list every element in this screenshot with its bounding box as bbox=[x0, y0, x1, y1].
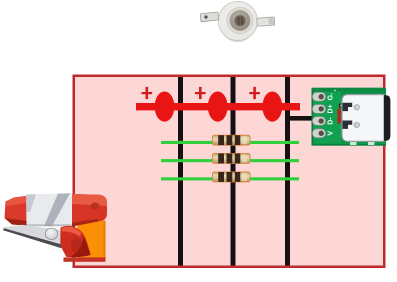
svg-text:D+: D+ bbox=[327, 104, 334, 113]
svg-text:D-: D- bbox=[327, 117, 334, 125]
svg-text:V: V bbox=[327, 131, 334, 136]
svg-text:G.: G. bbox=[327, 93, 334, 100]
